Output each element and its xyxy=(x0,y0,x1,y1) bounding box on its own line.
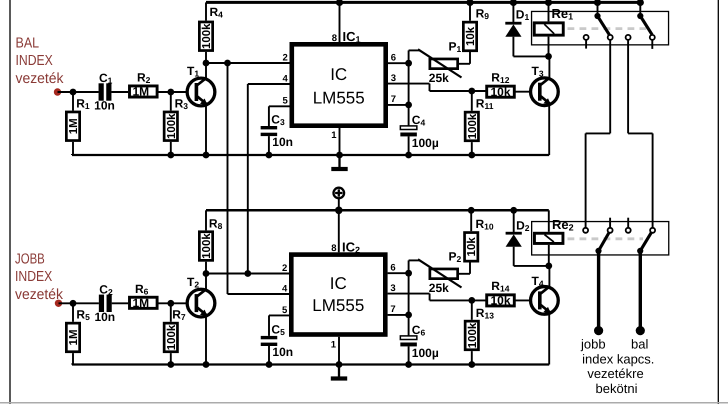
wire collector to IC1 pin 2 xyxy=(206,62,290,64)
diode D2 xyxy=(513,210,515,232)
terminal dot jobb xyxy=(594,326,603,335)
svg-text:3: 3 xyxy=(390,283,395,294)
junction dot R7 bottom xyxy=(167,361,174,368)
svg-text:IC: IC xyxy=(330,274,347,293)
node: right index wire input terminal (red dot) xyxy=(55,300,62,307)
svg-text:8: 8 xyxy=(331,243,336,254)
relay coil Re2 xyxy=(548,210,550,232)
svg-text:INDEX: INDEX xyxy=(15,269,53,285)
ground symbol top section xyxy=(338,155,340,167)
switch contact circle 4a xyxy=(626,228,631,233)
junction dot R5 top xyxy=(70,300,77,307)
junction dot R11 top xyxy=(468,88,475,95)
svg-text:3: 3 xyxy=(391,73,396,84)
wire link IC1-pin2 to IC2-pin4 (vertical) xyxy=(227,63,229,294)
svg-text:100k: 100k xyxy=(201,23,213,49)
svg-text:100k: 100k xyxy=(166,113,178,139)
svg-text:5: 5 xyxy=(283,96,289,107)
wire T3 collector up xyxy=(548,56,550,79)
wire input to C1 xyxy=(58,91,99,93)
capacitor C2 xyxy=(99,295,104,312)
resistor R5 xyxy=(72,303,74,322)
svg-text:BAL: BAL xyxy=(16,35,40,51)
svg-text:1M: 1M xyxy=(68,118,80,134)
svg-text:INDEX: INDEX xyxy=(16,53,54,69)
wire contact 1b down to Re2 box xyxy=(609,40,611,133)
switch contact circle 1a xyxy=(584,35,589,40)
wire IC1 pin 8 to rail xyxy=(339,2,341,42)
svg-text:4: 4 xyxy=(282,283,288,294)
resistor R4 xyxy=(205,2,207,20)
svg-text:7: 7 xyxy=(391,94,396,105)
junction dot cross-link A xyxy=(224,60,231,67)
junction dot R3 top xyxy=(167,89,174,96)
contact 2b stub xyxy=(651,40,653,49)
svg-text:jobb: jobb xyxy=(580,336,606,351)
switch pivot stub 1 xyxy=(597,2,599,16)
svg-text:JOBB: JOBB xyxy=(15,251,45,267)
node: left index wire input terminal (red dot) xyxy=(54,88,61,95)
resistor R10 xyxy=(470,210,472,231)
svg-text:1M: 1M xyxy=(132,85,149,99)
switch lever 4 xyxy=(640,233,651,251)
svg-text:2: 2 xyxy=(283,52,288,63)
mechanical link dashed line Re2 xyxy=(568,237,644,240)
mechanical link dashed line Re1 xyxy=(568,27,650,30)
wire T2 collector up xyxy=(205,274,207,291)
potentiometer P2 xyxy=(430,269,458,279)
junction dot pin8 rail xyxy=(336,0,343,6)
junction dot R9 rail xyxy=(466,0,473,6)
potentiometer P1 xyxy=(430,59,458,69)
capacitor C5 xyxy=(261,336,278,339)
svg-text:IC: IC xyxy=(330,65,347,84)
wire pin6 up to P1 wiper xyxy=(408,50,410,63)
junction dot R7 top xyxy=(167,300,174,307)
resistor R14 xyxy=(487,295,515,306)
wire IC2 pin 5 to C5 xyxy=(269,314,289,316)
junction dot rail pivot1 xyxy=(594,0,601,6)
svg-text:bal: bal xyxy=(631,336,648,351)
junction dot T2 collector xyxy=(203,270,210,277)
wire R2 to T1 base xyxy=(159,91,196,93)
wire C2 to R6 xyxy=(112,302,129,304)
svg-text:7: 7 xyxy=(390,304,395,315)
resistor R9 xyxy=(469,2,471,20)
right border line xyxy=(717,0,719,404)
svg-text:100µ: 100µ xyxy=(412,346,439,360)
svg-text:100µ: 100µ xyxy=(412,136,439,150)
capacitor C1 xyxy=(99,83,104,100)
switch pivot dot 2 xyxy=(637,13,643,19)
resistor R1 xyxy=(72,92,74,111)
junction dot pin1 lower rail xyxy=(336,361,343,368)
junction dot D2 rail xyxy=(510,207,517,214)
wire C3 to bottom rail xyxy=(268,136,270,155)
wire T4 collector up xyxy=(548,266,550,288)
junction dot R13 top xyxy=(468,297,475,304)
svg-text:10k: 10k xyxy=(490,85,510,99)
svg-text:vezetékre: vezetékre xyxy=(587,366,643,381)
transistor T2 xyxy=(187,289,215,317)
junction dot D1 rail xyxy=(510,0,517,6)
wire pin6-pin7 vertical to C4 xyxy=(408,63,410,126)
junction dot T1 emitter bottom xyxy=(203,152,210,159)
wire collector to IC2 pin 2 xyxy=(206,273,289,275)
switch contact circle 3b xyxy=(608,228,613,233)
junction dot R1 top xyxy=(70,89,77,96)
svg-text:1M: 1M xyxy=(68,329,80,345)
junction dot R10 rail xyxy=(468,207,475,214)
transistor T4 xyxy=(531,287,559,315)
junction dot C4 bottom xyxy=(405,152,412,159)
relay switch enclosure box Re1 xyxy=(532,11,669,44)
switch pivot dot 4 xyxy=(637,248,643,254)
junction dot C3 bottom xyxy=(266,152,273,159)
wire IC2 pin 8 to rail xyxy=(338,210,340,252)
bottom rail of lower section xyxy=(72,363,549,365)
svg-text:100k: 100k xyxy=(467,322,479,348)
wire R5 bottom corner xyxy=(71,364,73,365)
svg-text:10n: 10n xyxy=(94,99,115,113)
wire IC1 pin 4 to link B xyxy=(248,83,290,85)
wire IC2 pin 1 down xyxy=(338,337,340,365)
wire pivot3 to jobb terminal xyxy=(597,251,600,331)
wire IC2 pin 7 xyxy=(388,314,409,316)
wire T4 emitter down to rail xyxy=(548,313,550,364)
relay coil Re1 xyxy=(548,2,550,21)
svg-text:100k: 100k xyxy=(467,113,479,139)
top supply rail xyxy=(206,1,640,4)
capacitor C3 xyxy=(261,126,278,129)
switch pivot stub 2 xyxy=(639,2,641,16)
svg-text:25k: 25k xyxy=(429,71,449,85)
wire IC2 pin 3 to R13/R14 xyxy=(388,293,430,295)
wire IC1 pin 7 xyxy=(388,104,409,106)
svg-text:1M: 1M xyxy=(132,296,149,310)
svg-text:10n: 10n xyxy=(272,345,293,359)
wire IC1 pin 6 xyxy=(388,62,409,64)
contact 1a stub xyxy=(585,40,587,49)
wire pin6 up to P2 wiper xyxy=(408,260,410,273)
wire pivot4 to bal terminal xyxy=(639,251,642,331)
svg-text:100k: 100k xyxy=(201,233,213,259)
switch lever 2 xyxy=(640,16,652,35)
wire T2 emitter down to bottom rail xyxy=(205,316,207,364)
junction dot coil rail xyxy=(545,0,552,6)
junction dot R13 bottom xyxy=(468,361,475,368)
junction dot pin 7 xyxy=(405,102,412,109)
bottom rail of top section xyxy=(72,154,549,156)
wire P1 to R9 xyxy=(459,63,470,65)
wire T1 emitter down to bottom rail xyxy=(205,105,207,155)
wire link IC1-pin4 to IC2-pin2 (vertical) xyxy=(247,84,249,274)
svg-text:10k: 10k xyxy=(465,26,477,46)
svg-text:10n: 10n xyxy=(94,310,115,324)
svg-text:5: 5 xyxy=(282,305,288,316)
svg-text:LM555: LM555 xyxy=(312,296,364,315)
wire contact 2a down to Re2 box xyxy=(627,40,629,133)
wire T3 emitter down to rail xyxy=(548,105,550,155)
svg-text:8: 8 xyxy=(332,33,337,44)
resistor R13 xyxy=(471,300,473,319)
wire R12 to T3 base xyxy=(515,91,538,93)
wire T1 collector up xyxy=(205,63,207,79)
transistor T3 xyxy=(531,78,559,106)
resistor R12 xyxy=(487,86,515,97)
resistor R6 xyxy=(130,297,158,308)
svg-text:LM555: LM555 xyxy=(313,89,365,108)
svg-text:10k: 10k xyxy=(466,237,478,257)
svg-text:10n: 10n xyxy=(272,135,293,149)
switch contact circle 3a xyxy=(583,228,588,233)
transistor T1 xyxy=(187,78,215,106)
wire input to C2 xyxy=(59,302,99,304)
relay switch enclosure box Re2 xyxy=(532,222,669,255)
junction dot R11 bottom xyxy=(468,152,475,159)
junction dot T1 collector xyxy=(203,60,210,67)
junction dot pin 6 IC2 xyxy=(405,270,412,277)
wire R6 to T2 base xyxy=(159,302,196,304)
resistor R11 xyxy=(471,91,473,111)
wire C5 to bottom rail xyxy=(268,346,270,365)
resistor R2 xyxy=(130,86,158,97)
svg-text:4: 4 xyxy=(283,73,289,84)
left border line xyxy=(9,0,11,404)
junction dot D1-coil-T3 xyxy=(545,53,552,60)
wire C4 to bottom rail xyxy=(408,136,410,155)
bottom gray divider line xyxy=(0,402,728,404)
svg-text:6: 6 xyxy=(391,53,396,64)
svg-text:1: 1 xyxy=(331,130,337,141)
diode D1 xyxy=(512,2,514,22)
wire IC2 pin 6 xyxy=(388,272,409,274)
svg-text:bekötni: bekötni xyxy=(596,381,638,396)
switch lever 3 xyxy=(599,233,610,251)
contact 3b stub xyxy=(609,218,611,228)
middle supply rail xyxy=(206,209,549,212)
junction dot pin 7 IC2 xyxy=(405,312,412,319)
resistor R3 xyxy=(170,92,172,111)
svg-text:100k: 100k xyxy=(166,324,178,350)
junction dot C6 bottom xyxy=(405,361,412,368)
positive supply symbol xyxy=(334,188,345,199)
wire C6 to lower rail xyxy=(408,346,410,364)
svg-text:1: 1 xyxy=(331,340,337,351)
wire IC1 pin 3 to R11/R12 xyxy=(388,83,430,85)
wire C1 to R2 xyxy=(111,91,128,93)
junction dot pin 6 xyxy=(405,60,412,67)
switch lever 1 xyxy=(598,16,610,35)
wire pin6-pin7 vertical to C6 xyxy=(408,273,410,336)
junction dot T2 emitter bottom xyxy=(203,361,210,368)
junction dot cross-link B xyxy=(244,270,251,277)
svg-text:6: 6 xyxy=(390,263,395,274)
switch contact circle 2b xyxy=(650,35,655,40)
junction dot supply rail xyxy=(335,207,343,215)
junction dot C5 bottom xyxy=(266,361,273,368)
resistor R7 xyxy=(170,303,172,322)
junction dot D2-coil-T4 xyxy=(545,263,552,270)
svg-text:10k: 10k xyxy=(490,294,510,308)
resistor R8 xyxy=(205,210,207,230)
wire R14 to T4 base xyxy=(515,299,538,301)
switch contact circle 1b xyxy=(608,35,613,40)
ground symbol bottom section xyxy=(338,365,340,377)
junction dot pin1 bottom rail xyxy=(336,152,343,159)
junction dot rail pivot2 xyxy=(637,0,644,6)
op IC2 LM555 body xyxy=(291,255,385,335)
svg-text:index kapcs.: index kapcs. xyxy=(582,351,654,366)
svg-text:vezeték: vezeték xyxy=(16,71,65,87)
junction dot R3 bottom xyxy=(167,152,174,159)
switch contact circle 4b xyxy=(650,228,655,233)
wire R1 bottom corner xyxy=(71,154,73,155)
svg-text:25k: 25k xyxy=(429,281,449,295)
capacitor C4 (polarized) xyxy=(400,126,417,130)
switch pivot dot 3 xyxy=(595,248,601,254)
wire IC1 pin 1 down xyxy=(339,128,341,155)
switch pivot dot 1 xyxy=(594,13,600,19)
terminal dot bal xyxy=(636,326,645,335)
svg-text:2: 2 xyxy=(282,263,287,274)
switch contact circle 2a xyxy=(626,35,631,40)
wire P2 to R10 xyxy=(459,273,470,275)
contact 4a stub xyxy=(627,218,629,228)
op IC1 LM555 body xyxy=(292,44,386,125)
wire IC1 pin 5 to C3 xyxy=(269,105,290,107)
capacitor C6 (polarized) xyxy=(400,336,417,340)
